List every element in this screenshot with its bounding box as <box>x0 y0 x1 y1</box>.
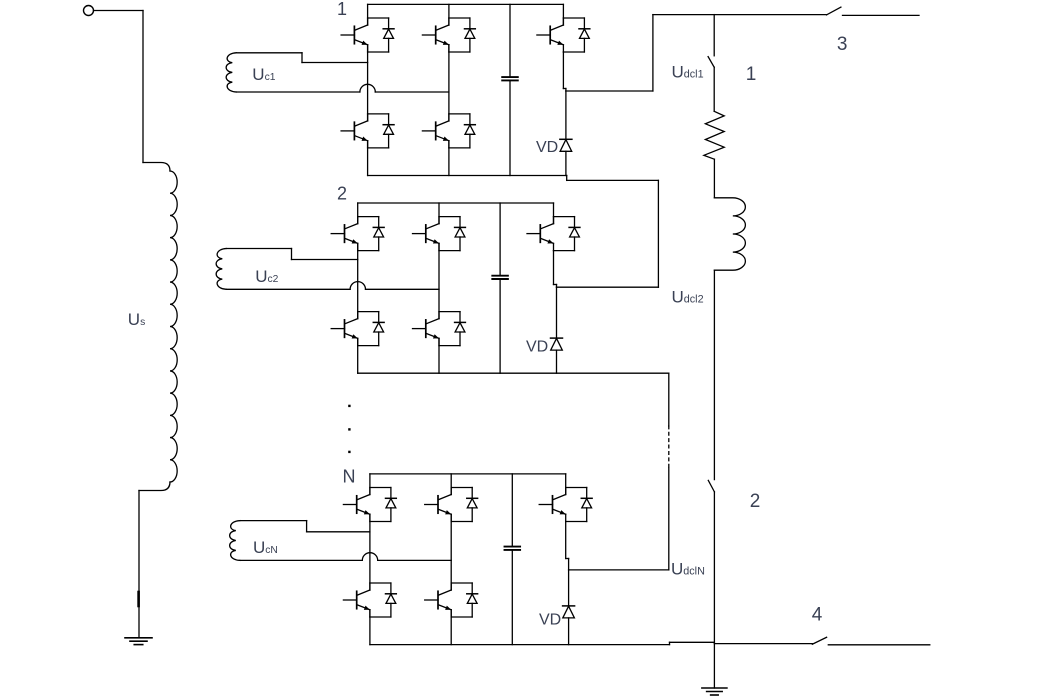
transistor Q35 <box>539 488 587 522</box>
transistor Q22 <box>413 217 461 251</box>
wire AC bottom with hop (module N) <box>362 553 451 561</box>
wire module 1 leg2 <box>448 4 450 175</box>
svg-text:1: 1 <box>337 0 347 19</box>
wire AC bottom with hop (module 1) <box>360 84 449 92</box>
diode D24 <box>455 312 466 346</box>
transistor Q21 <box>331 217 379 251</box>
diode D25 <box>569 217 580 251</box>
diode VD2 <box>551 287 563 373</box>
wire module 2 top rail <box>358 202 554 204</box>
transistor Q15 <box>537 18 585 52</box>
svg-text:2: 2 <box>337 183 347 203</box>
svg-text:3: 3 <box>837 34 848 55</box>
wire dashed continuation <box>668 426 670 468</box>
diode D33 <box>386 583 397 617</box>
inductor Us (source winding) <box>139 163 177 491</box>
wire top DC bus <box>653 14 827 16</box>
svg-text:VD: VD <box>536 139 558 156</box>
svg-text:2: 2 <box>750 491 761 512</box>
diode VD1 <box>560 91 572 176</box>
wire module2 negative down <box>668 373 670 426</box>
wire module 2 chopper leg <box>553 203 555 224</box>
svg-text:Uc2: Uc2 <box>255 267 278 286</box>
wire module 2 bottom rail <box>358 372 669 374</box>
switch S2 <box>708 480 714 491</box>
wire module N chopper leg <box>565 474 567 495</box>
diode D34 <box>467 583 478 617</box>
diode VDN <box>563 570 575 645</box>
wire module 1 leg1 <box>367 4 369 175</box>
svg-text:Us: Us <box>128 310 145 329</box>
wire module 1 bottom rail <box>368 176 567 181</box>
resistor R <box>704 111 724 159</box>
wire module 2 positive output <box>557 286 659 288</box>
diode D22 <box>455 217 466 251</box>
svg-text:N: N <box>343 466 356 486</box>
transistor Q25 <box>527 217 575 251</box>
capacitor C2 <box>492 203 508 373</box>
wire bottom bus to switch 4 <box>714 643 812 645</box>
diode D35 <box>581 488 592 522</box>
wire to DC ground <box>713 644 715 688</box>
diode D32 <box>467 488 478 522</box>
wire AC top (module N) <box>307 531 370 533</box>
svg-text:Udcl2: Udcl2 <box>672 287 704 306</box>
transistor Q24 <box>413 312 461 346</box>
wire from terminal <box>94 11 144 163</box>
transistor Q34 <box>425 583 473 617</box>
wire module N bottom rail <box>370 642 670 644</box>
winding UcN <box>230 521 363 561</box>
wire module N leg2 <box>450 474 452 645</box>
wire top bus right of switch 3 <box>843 14 920 16</box>
diode D13 <box>383 114 394 148</box>
diode D14 <box>465 114 476 148</box>
wire to source ground <box>138 491 140 638</box>
svg-text:4: 4 <box>812 605 823 626</box>
wire switch1 to resistor <box>713 67 715 111</box>
wire bottom bus right of switch 4 <box>828 644 930 646</box>
wire switch2 to bottom bus <box>713 492 715 644</box>
svg-text:1: 1 <box>746 64 757 85</box>
wire module N top rail <box>370 473 566 475</box>
wire resistor to inductor <box>713 159 715 198</box>
diode D11 <box>383 18 394 52</box>
wire module 1 top rail <box>368 3 564 5</box>
wire module 2 leg2 <box>438 203 440 373</box>
svg-text:VD: VD <box>526 339 548 356</box>
diode D15 <box>579 18 590 52</box>
svg-text:Udcl1: Udcl1 <box>672 62 704 81</box>
capacitor C1 <box>502 4 518 175</box>
diode D12 <box>465 18 476 52</box>
switch 3 <box>827 7 841 15</box>
wire bottom bus left segment <box>670 641 715 643</box>
wire AC top (module 1) <box>302 62 368 64</box>
wire AC top (module 2) <box>292 259 358 261</box>
transistor Q32 <box>425 488 473 522</box>
svg-text:Uc1: Uc1 <box>252 65 275 84</box>
wire module1 negative to module2 positive <box>567 180 659 287</box>
switch 4 <box>812 637 826 644</box>
diode D23 <box>373 312 384 346</box>
transistor Q12 <box>422 18 470 52</box>
node module 1 output (chopper emitter) <box>563 52 566 91</box>
capacitor C3 <box>505 474 521 645</box>
wire inductor to switch 2 <box>713 270 715 479</box>
ground source ground <box>125 638 152 645</box>
switch S1 <box>708 57 714 68</box>
winding Uc2 <box>216 249 350 290</box>
diode D21 <box>373 217 384 251</box>
wire module 1 chopper leg <box>562 4 564 25</box>
transistor Q23 <box>331 312 379 346</box>
svg-text:UdclN: UdclN <box>671 559 705 578</box>
terminal (AC input) <box>84 6 94 16</box>
wire module 1 positive output <box>566 15 653 91</box>
diode D31 <box>386 488 397 522</box>
node module 2 output (chopper emitter) <box>554 251 557 288</box>
transistor Q31 <box>343 488 391 522</box>
wire AC bottom with hop (module 2) <box>350 282 439 290</box>
transistor Q14 <box>422 114 470 148</box>
wire to moduleN positive <box>569 468 669 570</box>
winding Uc1 <box>226 53 360 92</box>
svg-text:VD: VD <box>539 612 561 629</box>
transistor Q11 <box>341 18 389 52</box>
wire module 2 leg1 <box>357 203 359 373</box>
ground DC bus ground <box>702 688 727 695</box>
ellipsis dots (more modules) <box>348 405 350 453</box>
inductor L <box>714 198 745 270</box>
wire module N leg1 <box>369 474 371 645</box>
node module N output (chopper emitter) <box>566 522 569 570</box>
transistor Q33 <box>343 583 391 617</box>
wire main bus upper <box>713 15 715 56</box>
transistor Q13 <box>341 114 389 148</box>
svg-text:UcN: UcN <box>253 538 278 557</box>
